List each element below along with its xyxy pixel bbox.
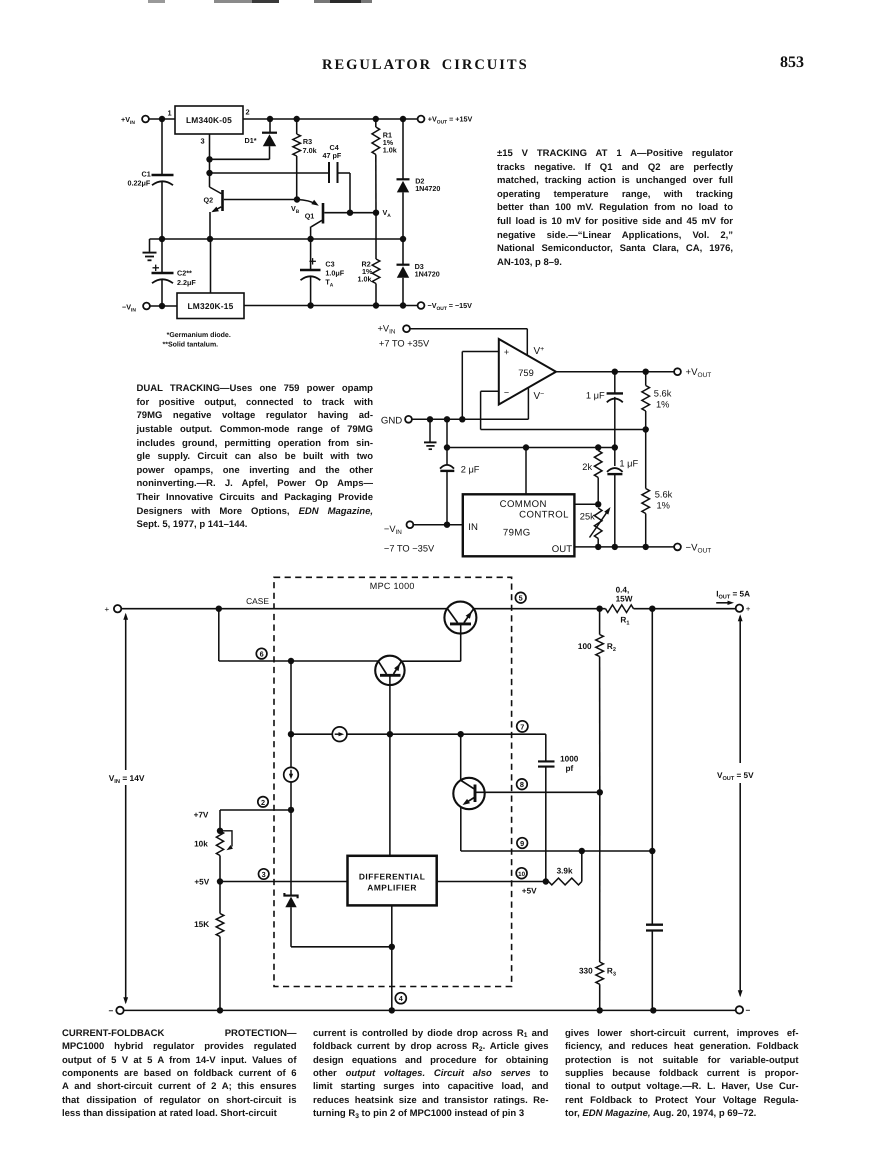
svg-text:3: 3 [200,137,204,146]
arrow IOUT [716,602,730,604]
svg-text:+VIN: +VIN [121,115,135,126]
header running title [322,57,529,74]
capacitor 1uF (lower) [614,448,616,467]
svg-text:VB: VB [291,204,300,215]
svg-text:79MG: 79MG [503,527,531,538]
node +VOUT terminal [418,116,425,123]
svg-text:+7V: +7V [194,811,209,820]
capacitor C3 [310,239,312,270]
node bottom-right terminal [736,1006,743,1013]
measurement line VIN [125,615,127,771]
resistor 3.9k [549,878,582,885]
text block: bottom caption column 3 [565,1027,799,1121]
svg-text:Q1: Q1 [305,211,315,220]
regulator 79MG box [463,494,575,556]
node C4 bottom [347,210,353,216]
svg-text:LM320K-15: LM320K-15 [187,301,233,311]
svg-text:C3: C3 [325,259,334,268]
svg-text:IN: IN [468,522,478,533]
text block: bottom caption column 2 [313,1027,549,1121]
node diffamp bottom rail [389,1007,395,1013]
svg-text:3: 3 [262,870,266,879]
svg-text:5: 5 [519,594,523,603]
node 15K bottom [217,1007,223,1013]
svg-text:1.0k: 1.0k [383,146,397,155]
node + input terminal [114,605,121,612]
node R1 top [373,116,379,122]
regulator U2 LM320K-15 [177,293,244,319]
wire to C4 left plate [210,172,330,174]
text block: ±15V tracking caption [497,147,733,269]
rheostat 10k [216,831,223,856]
current source CS2 (arrow down) [290,734,292,767]
svg-text:*Germanium diode.: *Germanium diode. [167,331,231,339]
node 5.6k bottom [643,544,649,550]
svg-text:1 μF: 1 μF [586,390,605,400]
scan marks top edge [148,0,165,3]
node R3 bottom [597,1007,603,1013]
svg-text:TA: TA [325,277,333,288]
transistor Q1 [297,200,317,205]
node R3 top [294,116,300,122]
ground [149,239,151,252]
node 2uF bottom [444,522,450,528]
wire OUT line [574,546,674,548]
text block: dual tracking caption [137,382,374,532]
svg-text:DIFFERENTIAL: DIFFERENTIAL [359,871,425,881]
wire node8 line [475,791,600,793]
node +input branch [459,416,465,422]
svg-text:−: − [746,1006,751,1015]
node 7 [517,721,528,732]
svg-text:−: − [504,387,509,397]
svg-text:+VOUT: +VOUT [686,367,712,379]
svg-text:10k: 10k [194,840,208,849]
svg-text:MPC 1000: MPC 1000 [370,581,415,591]
svg-text:1.0μF: 1.0μF [325,268,344,277]
svg-text:OUT: OUT [552,544,572,555]
wire Qmid to Qtop emitter link [402,660,461,662]
svg-text:47 pF: 47 pF [323,151,342,160]
resistor R1 [375,119,377,127]
wire -VIN to IN pin [413,524,463,526]
node 1uF cap2 top [612,444,618,450]
node pin3/D1 [206,156,212,162]
wire common rail [446,419,448,447]
svg-text:3.9k: 3.9k [557,866,573,875]
node 25k bottom [595,544,601,550]
svg-text:1000: 1000 [560,754,579,763]
svg-text:1N4720: 1N4720 [415,184,440,193]
svg-text:1%: 1% [657,501,670,511]
dashed box MPC 1000 [274,577,512,986]
svg-text:+: + [105,605,110,614]
svg-text:+5V: +5V [522,886,537,895]
wire bottom rail [124,1009,736,1011]
node 6 [256,648,267,659]
node Q2 emitter gnd [207,236,213,242]
svg-text:COMMON: COMMON [500,499,547,510]
zener diode [290,810,292,896]
svg-text:−VIN: −VIN [122,303,136,314]
node control/25k [595,501,601,507]
svg-text:10: 10 [518,871,525,878]
svg-text:5.6k: 5.6k [655,490,673,500]
node 1000pF bottom [543,878,549,884]
node +VIN terminal [142,116,149,123]
wire diffamp bottom pin [391,905,393,1010]
node R2 bottom [597,789,603,795]
svg-text:1%: 1% [656,400,669,410]
svg-text:R2: R2 [607,642,616,653]
node 4 [395,993,406,1004]
svg-text:+: + [504,347,509,357]
capacitor 1000 pF [538,760,555,762]
wire diffamp top pin [389,734,391,856]
node +VOUT terminal [674,368,681,375]
diode D2 [402,119,404,179]
node C1 gnd [159,236,165,242]
resistor R2 (100) [599,609,601,635]
transistor Q2 [221,190,224,211]
svg-text:CASE: CASE [246,596,269,606]
wire mid ground rail [150,238,404,240]
node pin3/C4 line [206,170,212,176]
resistor R3 (330) [596,962,604,984]
svg-text:−VOUT: −VOUT [686,542,712,554]
svg-text:−VOUT = −15V: −VOUT = −15V [428,301,473,312]
node VA [373,210,379,216]
svg-text:1.0k: 1.0k [358,275,372,284]
svg-text:IOUT = 5A: IOUT = 5A [716,589,750,600]
svg-text:Q2: Q2 [204,195,214,204]
wire +7V line [220,809,291,811]
diode D1 [269,119,271,133]
node 10k top [217,828,223,834]
wire -VIN to LM320K [150,305,177,307]
wire C4 to VB/VA line [338,172,351,174]
svg-text:−: − [109,1007,114,1016]
node out cap top [649,606,655,612]
svg-text:2 μF: 2 μF [461,464,480,474]
node R2 top [596,606,602,612]
svg-text:2: 2 [261,798,265,807]
svg-text:1N4720: 1N4720 [415,270,440,279]
svg-text:+7 TO +35V: +7 TO +35V [379,338,430,348]
node IOUT terminal [736,605,743,612]
svg-text:330: 330 [579,966,593,975]
svg-text:−7 TO −35V: −7 TO −35V [384,543,435,553]
node Q1 collector / C3 [307,236,313,242]
svg-text:C1: C1 [142,170,151,179]
node -VIN terminal [143,303,150,310]
svg-text:8: 8 [520,780,524,789]
svg-text:100: 100 [578,642,592,651]
wire Q2 base to R3 node [224,199,297,201]
node D1 branch [267,116,273,122]
svg-text:7.0k: 7.0k [303,146,317,155]
measurement line VOUT [739,616,741,763]
wire 1000pF branch [545,734,547,761]
svg-text:D1*: D1* [245,136,257,145]
node +5V left [217,878,223,884]
svg-text:**Solid tantalum.: **Solid tantalum. [163,340,219,348]
node Qbottom collector branch [458,731,464,737]
wire D1 anode to pin3 node [210,158,270,160]
wire COMMON pin [525,448,527,495]
svg-text:7: 7 [520,723,524,732]
svg-text:V−: V− [534,391,545,402]
node COMMON pin [523,444,529,450]
node vert x291 top [288,658,294,664]
svg-text:R3: R3 [607,966,616,977]
svg-text:25k: 25k [580,512,595,522]
node VB [294,196,300,202]
capacitor 2uF [446,448,448,465]
wire feedback line [481,429,646,431]
node 10 [516,868,527,879]
wire 3.9k up link [581,851,583,882]
capacitor C1 [161,119,163,175]
node D3 bottom [400,302,406,308]
svg-text:5.6k: 5.6k [654,389,672,399]
wire CASE branch down [218,609,220,661]
wire LM320K gnd pin [210,239,212,293]
transistor Q bottom (circle) [460,734,462,780]
svg-text:2k: 2k [582,462,592,472]
node gnd sym branch [427,416,433,422]
node 8 [517,779,528,790]
wire noninverting input [462,351,499,353]
node 5 [515,592,526,603]
wire V- pin down [527,388,529,419]
node -VIN terminal [407,521,414,528]
wire top rail [121,608,605,610]
wire Q1 base line [324,212,376,214]
node 3.9k right [579,848,585,854]
svg-text:+5V: +5V [194,877,209,886]
node outcap bottom [650,1007,656,1013]
svg-text:VIN = 14V: VIN = 14V [109,773,145,785]
diode D3 [402,239,404,265]
svg-text:CONTROL: CONTROL [519,510,569,521]
capacitor 1uF (upper) [614,372,616,394]
svg-text:759: 759 [518,368,534,378]
transistor Q top (circle) [444,602,476,634]
wire node6 line [219,660,379,662]
wire ground rail to V- [412,418,529,420]
wire bottom rail to -VOUT [244,305,418,307]
differential amplifier box [348,856,437,906]
node +7V line [288,807,294,813]
node common rail left [444,444,450,450]
svg-text:+VOUT = +15V: +VOUT = +15V [428,115,473,126]
wire pin 3 down [209,134,211,187]
svg-text:R3: R3 [303,137,312,146]
svg-text:15W: 15W [616,595,633,604]
capacitor output [646,924,663,926]
wire top rail to +VOUT [243,118,418,120]
svg-text:2: 2 [245,108,249,117]
node out cap mid [649,848,655,854]
node 2k top [595,444,601,450]
wire diffamp right pin [437,881,546,883]
svg-text:GND: GND [381,415,402,426]
wire node7 line [347,733,546,735]
resistor 15K [219,882,221,914]
wire +5V line left [220,881,348,883]
node Qmid base [387,731,393,737]
svg-text:9: 9 [520,839,524,848]
svg-text:VA: VA [383,208,392,219]
svg-text:−VIN: −VIN [384,524,402,536]
wire CONTROL pin [574,503,598,505]
wire output cap branch [651,609,653,924]
svg-text:C2**: C2** [177,268,192,277]
svg-text:LM340K-05: LM340K-05 [186,115,232,125]
svg-text:R1: R1 [620,615,629,626]
resistor 5.6k lower [645,430,647,489]
svg-text:0.4,: 0.4, [616,585,630,594]
wire node9 line [461,850,653,852]
regulator U1 LM340K-05 [175,106,243,134]
node 3 [259,869,269,879]
svg-text:15K: 15K [194,920,209,929]
node CASE branch [216,606,222,612]
wire output rail [556,371,674,373]
wire zener to diffamp bottom [291,946,392,948]
node feedback divider [643,426,649,432]
node current src line left [288,731,294,737]
svg-text:pf: pf [566,764,574,773]
wire Qmid base down [389,685,391,734]
capacitor C2 [161,239,163,273]
svg-text:V+: V+ [534,346,545,357]
node input junction [159,116,165,122]
rheostat 25k [594,508,602,539]
node +VIN terminal (759) [403,325,410,332]
node -VOUT terminal [418,302,425,309]
node 5.6k top [643,369,649,375]
svg-text:0.22μF: 0.22μF [128,178,151,187]
svg-text:AMPLIFIER: AMPLIFIER [367,882,417,892]
node zener/diffamp [389,944,395,950]
op-amp U3 759 [499,339,556,405]
svg-text:1 μF: 1 μF [619,459,638,469]
resistor R3 [296,119,298,134]
resistor R1 (series) [606,605,634,613]
svg-text:+VIN: +VIN [378,324,396,336]
node -VIN junction [159,303,165,309]
resistor 2k [597,448,599,451]
node C3 bottom [307,302,313,308]
resistor 5.6k upper [645,372,647,386]
wire left vertical x291 [290,661,292,734]
node 9 [517,838,528,849]
capacitor C4 [328,162,330,183]
wire +VIN to V+ pin [410,328,527,330]
svg-text:1: 1 [167,109,171,118]
node 2 [258,797,268,807]
svg-text:VOUT = 5V: VOUT = 5V [717,771,754,782]
node bottom-left terminal [116,1007,123,1014]
transistor Q mid (circle) [375,656,404,685]
wire inverting input [481,390,499,392]
current source CS1 (arrow right) [291,733,332,735]
node 2uF branch [444,416,450,422]
node cap2 bottom [612,544,618,550]
node -VOUT terminal [674,544,681,551]
node D2 branch [400,116,406,122]
node cap1 top [612,369,618,375]
svg-text:6: 6 [260,650,264,659]
text block: bottom caption column 1 [62,1027,297,1121]
page number 853 [780,54,804,72]
node R2 bottom [373,302,379,308]
wire +VIN to LM340K input [149,118,175,120]
node GND terminal [405,416,412,423]
ground [429,419,431,441]
node D2 D3 junction [400,236,406,242]
resistor R2 [375,213,377,259]
svg-text:+: + [746,605,751,614]
svg-text:2.2μF: 2.2μF [177,278,196,287]
